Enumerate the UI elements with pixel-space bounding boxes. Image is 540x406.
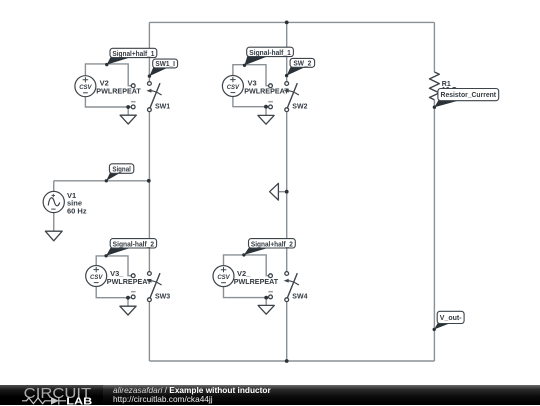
svg-text:CSV: CSV [90, 275, 103, 281]
svg-text:Signal-half_1: Signal-half_1 [249, 48, 291, 57]
svg-text:PWLREPEAT: PWLREPEAT [107, 277, 152, 286]
svg-text:CSV: CSV [217, 275, 230, 281]
svg-text:Resistor_Current: Resistor_Current [441, 90, 497, 99]
svg-text:SW1_I: SW1_I [155, 59, 175, 68]
svg-text:PWLREPEAT: PWLREPEAT [234, 277, 279, 286]
svg-text:LAB: LAB [66, 395, 92, 406]
svg-text:SW3: SW3 [155, 294, 170, 301]
svg-text:SW4: SW4 [292, 294, 307, 301]
svg-text:CSV: CSV [79, 85, 92, 91]
svg-text:Signal+half_2: Signal+half_2 [251, 239, 293, 248]
svg-text:SW_2: SW_2 [293, 59, 311, 68]
svg-text:Signal: Signal [112, 165, 131, 174]
svg-text:SW2: SW2 [292, 104, 307, 111]
svg-text:60 Hz: 60 Hz [67, 206, 87, 215]
svg-text:SW1: SW1 [155, 104, 170, 111]
svg-text:Signal+half_1: Signal+half_1 [112, 49, 154, 58]
svg-text:V_out-: V_out- [440, 313, 462, 322]
svg-text:PWLREPEAT: PWLREPEAT [244, 86, 289, 95]
svg-text:Signal-half_2: Signal-half_2 [113, 239, 155, 248]
svg-text:CSV: CSV [227, 85, 240, 91]
